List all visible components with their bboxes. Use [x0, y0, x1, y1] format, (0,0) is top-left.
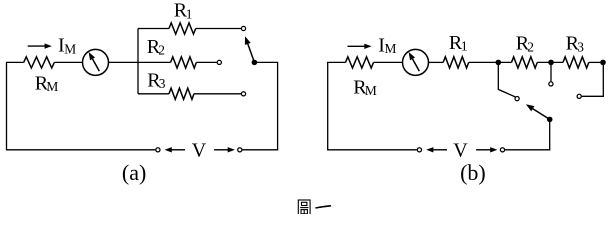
- wire node1 down diagonal to contact 1 (b): [498, 62, 515, 97]
- meter needle (a): [89, 52, 100, 71]
- wire node2 down to contact 2 (b): [550, 62, 552, 81]
- label R1 (b): [449, 32, 468, 54]
- svg-text:(b): (b): [460, 160, 486, 185]
- contact terminal R1 (a): [241, 26, 245, 30]
- resistor RM (a): [24, 57, 55, 68]
- meter needle (b): [409, 52, 420, 71]
- resistor R2 (a): [171, 57, 197, 68]
- contact terminal R2 (a): [217, 60, 221, 64]
- label IM (a): [58, 35, 76, 57]
- wire R3 to right corner (b): [589, 61, 604, 63]
- wire switch pivot to right side down to bottom (a): [242, 62, 277, 149]
- V arrow right (b): [476, 147, 497, 152]
- wire left side loop (b): [328, 62, 417, 149]
- wire right corner down to contact 3 (b): [582, 62, 604, 96]
- svg-text:M: M: [64, 41, 76, 56]
- contact terminal R3 (a): [241, 92, 245, 96]
- resistor R3 (a): [169, 88, 194, 99]
- svg-text:2: 2: [527, 39, 534, 54]
- caption figure one glyph tu: [298, 200, 310, 215]
- wire branch vertical bus (a): [137, 29, 139, 94]
- switch pivot dot (a): [252, 60, 258, 66]
- resistor R2 (b): [512, 57, 538, 68]
- label IM (b): [378, 35, 396, 57]
- wire R2 to node2 to R3 (b): [537, 61, 563, 63]
- node junction dot 1 (b): [496, 60, 502, 66]
- wire R1 branch (a): [138, 28, 241, 30]
- label R1 (a): [174, 0, 193, 22]
- terminal V right (b): [500, 148, 504, 152]
- label R2 (b): [516, 33, 534, 55]
- wire pivot down to bottom terminal (b): [505, 119, 550, 149]
- resistor R1 (b): [443, 57, 468, 68]
- svg-text:1: 1: [461, 39, 468, 54]
- wire R2 branch to contact (a): [138, 61, 217, 63]
- label RM (a): [35, 72, 59, 94]
- ammeter U1 (a): [83, 49, 109, 75]
- wire RM to meter (a): [54, 61, 82, 63]
- label R2 (a): [147, 36, 165, 58]
- svg-text:3: 3: [159, 76, 166, 91]
- terminal V right (a): [238, 148, 242, 152]
- svg-text:3: 3: [577, 39, 584, 54]
- wire R1 to node1 to R2 (b): [469, 61, 512, 63]
- V arrow left (b): [426, 147, 447, 152]
- label R3 (a): [147, 69, 166, 91]
- node junction dot right corner (b): [600, 60, 606, 66]
- contact terminal 1 (b): [515, 97, 519, 101]
- switch wiper arm (b): [526, 104, 550, 119]
- resistor R1 (a): [169, 23, 196, 34]
- node junction dot 2 (b): [548, 60, 554, 66]
- resistor R3 (b): [563, 57, 589, 68]
- terminal V left (a): [156, 148, 160, 152]
- label R3 (b): [566, 33, 585, 55]
- svg-text:1: 1: [186, 6, 193, 21]
- resistor RM (b): [346, 57, 374, 68]
- wire meter to branch node (a): [109, 61, 139, 63]
- wire RM to meter (b): [374, 61, 403, 63]
- current arrow IM (a): [28, 43, 52, 48]
- contact terminal 3 (b): [577, 94, 581, 98]
- svg-text:M: M: [385, 41, 397, 56]
- V arrow right (a): [214, 147, 235, 152]
- svg-text:2: 2: [158, 43, 165, 58]
- svg-text:M: M: [365, 83, 377, 98]
- svg-text:V: V: [453, 140, 468, 162]
- wire R3 branch (a): [138, 93, 241, 95]
- svg-text:(a): (a): [122, 160, 146, 185]
- switch pivot dot (b): [547, 117, 553, 123]
- caption figure one glyph yi: [315, 205, 331, 209]
- svg-text:V: V: [192, 140, 207, 162]
- current arrow IM (b): [348, 44, 372, 49]
- terminal V left (b): [417, 148, 421, 152]
- ammeter U2 (b): [403, 49, 429, 75]
- switch wiper arm (a): [245, 36, 255, 62]
- V arrow left (a): [165, 147, 185, 152]
- contact terminal 2 (b): [549, 82, 553, 86]
- label RM (b): [353, 76, 377, 98]
- svg-text:M: M: [46, 79, 58, 94]
- wire meter to R1 (b): [429, 61, 444, 63]
- wire left side loop (a): [7, 62, 156, 149]
